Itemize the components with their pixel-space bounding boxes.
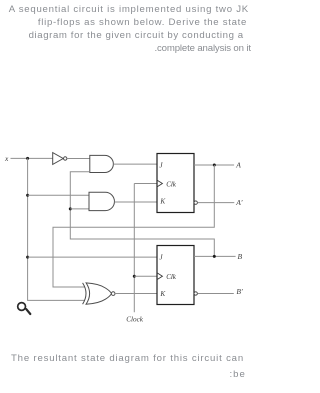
- question text line 4: [155, 42, 251, 55]
- question text line 1: [9, 3, 249, 16]
- svg-text:Clock: Clock: [126, 316, 144, 324]
- wire clock to FF2 Clk: [134, 275, 157, 277]
- wire clock vertical line: [133, 184, 135, 313]
- svg-text:Clk: Clk: [166, 180, 177, 188]
- junction A output feedback: [213, 164, 216, 167]
- wire FF2 Q' to B': [197, 293, 233, 295]
- svg-text:A′: A′: [235, 198, 243, 207]
- JK flip-flop U2 (B): [157, 246, 197, 305]
- wire x input: [11, 157, 53, 159]
- wire inverter output to AND1 input 1: [67, 158, 90, 160]
- JK flip-flop U1 (A): [157, 154, 197, 213]
- wire x-net to AND2 input 1: [28, 194, 90, 196]
- AND gate G3 (bottom): [89, 192, 114, 210]
- wire FF1 Q to A: [194, 164, 234, 166]
- wire B feedback to AND2 input 2: [70, 208, 89, 210]
- answer text bottom line 2: [230, 368, 246, 381]
- wire FF1 Q' to A': [197, 202, 234, 204]
- wire A feedback to XNOR input 1: [53, 165, 214, 287]
- answer text bottom line 1: [11, 352, 244, 365]
- XNOR gate G4: [83, 283, 115, 304]
- wire FF2 Q to B: [194, 255, 236, 257]
- inverter G1: [53, 153, 67, 165]
- junction x-net at inverter input: [26, 157, 29, 160]
- question text line 3: [29, 29, 244, 42]
- svg-text:x: x: [4, 154, 9, 163]
- junction x-net branch to AND2: [26, 194, 29, 197]
- svg-text:Clk: Clk: [166, 273, 177, 281]
- wire AND1 output to FF1 J: [113, 163, 157, 165]
- svg-text:B′: B′: [236, 287, 243, 296]
- svg-text:B: B: [238, 252, 243, 261]
- wire clock to FF1 Clk: [134, 183, 157, 185]
- junction B feedback branch to AND2: [69, 207, 72, 210]
- wire XNOR output to FF2 K: [115, 293, 157, 295]
- wire AND2 output to FF1 K: [114, 201, 157, 203]
- wire B feedback from B junction to AND1 input 2: [70, 172, 214, 257]
- svg-text:A: A: [235, 161, 241, 170]
- wire x-net to FF2 J input: [28, 256, 157, 258]
- magnifier zoom icon: [18, 303, 31, 314]
- wire x-net vertical down to XNOR input 2: [28, 158, 85, 300]
- question text line 2: [38, 16, 247, 29]
- AND gate G2 (top): [90, 155, 114, 172]
- junction B output feedback: [213, 255, 216, 258]
- junction x-net branch to FF2 J: [26, 256, 29, 259]
- junction clock branch to FF2: [133, 275, 136, 278]
